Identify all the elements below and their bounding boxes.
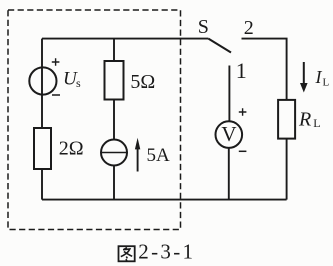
voltmeter V [216, 121, 243, 148]
svg-text:I: I [315, 67, 323, 87]
svg-text:1: 1 [236, 58, 247, 83]
minus sign of voltmeter polarity [239, 150, 247, 152]
svg-text:5Ω: 5Ω [130, 71, 155, 93]
wire: between 5ohm resistor and current source [113, 100, 115, 140]
svg-text:s: s [76, 76, 81, 90]
wire: left branch vertical (through Us down to 2ohm resistor) [41, 39, 43, 128]
caption figure character tu (drawn) [119, 246, 135, 261]
current arrow IL [303, 62, 305, 84]
svg-text:L: L [313, 116, 320, 130]
wire: top horizontal from node a to switch pivot [42, 38, 208, 40]
wire: bottom rail [42, 199, 287, 201]
wire: 5ohm branch top [113, 39, 115, 61]
resistor 2ohm [34, 128, 51, 169]
voltage source Us (circle on wire) [29, 67, 56, 94]
current source 5A (circle with bar) [101, 140, 127, 166]
wire: throw-1 contact down to voltmeter [228, 66, 230, 122]
resistor 5ohm [105, 61, 124, 100]
plus sign of voltmeter polarity [239, 108, 247, 116]
svg-text:2: 2 [244, 17, 254, 39]
dashed two-terminal network box [8, 10, 181, 230]
minus sign of Us polarity [52, 94, 60, 96]
wire: below 2ohm resistor to bottom rail [41, 169, 43, 200]
plus sign of Us polarity [52, 58, 60, 66]
svg-text:L: L [323, 77, 330, 89]
wire: below voltmeter to bottom rail [228, 148, 230, 200]
wire: below current source to bottom rail [113, 166, 115, 200]
current direction arrow of 5A source [137, 148, 139, 172]
load resistor RL [278, 100, 295, 139]
switch S blade [208, 39, 231, 53]
svg-text:2Ω: 2Ω [59, 138, 84, 160]
wire: below RL to bottom rail [286, 139, 288, 200]
svg-text:2-3-1: 2-3-1 [138, 240, 195, 264]
svg-text:V: V [221, 122, 236, 146]
svg-text:5A: 5A [147, 145, 171, 166]
wire: throw-2 contact to right branch [242, 39, 287, 100]
svg-text:S: S [198, 16, 209, 38]
svg-text:R: R [298, 108, 311, 130]
